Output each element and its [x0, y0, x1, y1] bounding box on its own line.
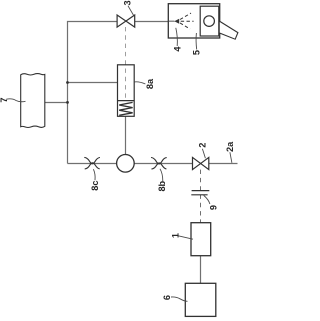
svg-text:1: 1 — [171, 233, 181, 238]
svg-text:2a: 2a — [225, 141, 235, 152]
svg-text:7: 7 — [0, 97, 9, 102]
svg-text:3: 3 — [123, 0, 133, 5]
svg-text:6: 6 — [162, 295, 172, 300]
svg-text:8b: 8b — [157, 180, 167, 191]
svg-text:8a: 8a — [145, 78, 155, 89]
svg-text:4: 4 — [172, 46, 182, 52]
svg-text:8c: 8c — [90, 180, 100, 190]
svg-text:2: 2 — [197, 143, 207, 148]
svg-text:5: 5 — [192, 50, 202, 55]
svg-text:9: 9 — [209, 205, 219, 210]
